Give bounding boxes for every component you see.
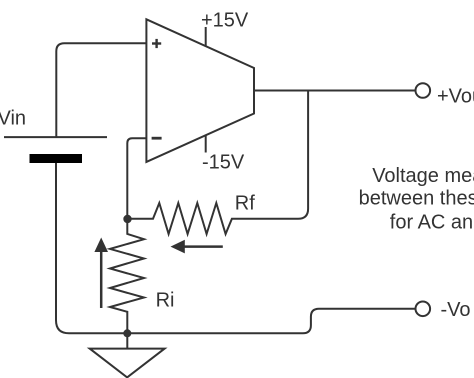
+15V power pin (205, 27, 207, 46)
resistor Rf with feedback wire to output (128, 91, 309, 235)
svg-text:Rf: Rf (235, 193, 255, 215)
wire battery+ to op-amp noninverting input (56, 43, 146, 137)
wire inverting input to node A (127, 138, 146, 219)
op-amp U1 (146, 19, 254, 162)
output wire to +Vo (254, 90, 415, 92)
ground (90, 349, 165, 378)
resistor Ri (110, 219, 144, 349)
node A junction dot (123, 215, 131, 223)
battery V1 (Vin source) (4, 137, 107, 163)
svg-text:between these: between these (359, 188, 474, 210)
svg-text:Ri: Ri (156, 289, 175, 311)
terminal +Vo (416, 83, 431, 98)
svg-text:for AC analysis: for AC analysis (390, 211, 474, 233)
arrow beside Ri (adjustment, points up) (94, 238, 108, 309)
-15V power pin (205, 135, 207, 152)
terminal -Vo (416, 302, 431, 317)
svg-text:+15V: +15V (201, 9, 249, 31)
svg-text:Voltage measured: Voltage measured (372, 165, 474, 187)
node B junction dot (Ri to rail) (123, 329, 131, 337)
wire battery- to -Vo (bottom rail) (56, 163, 415, 333)
svg-text:Vin: Vin (0, 108, 26, 130)
arrow under Rf (adjustment, points left) (171, 240, 223, 254)
op-amp - input marker (152, 137, 162, 140)
svg-text:-15V: -15V (202, 151, 245, 173)
svg-text:+Vout: +Vout (437, 86, 474, 108)
svg-text:-Vo: -Vo (441, 299, 471, 321)
op-amp + input marker (152, 39, 161, 48)
